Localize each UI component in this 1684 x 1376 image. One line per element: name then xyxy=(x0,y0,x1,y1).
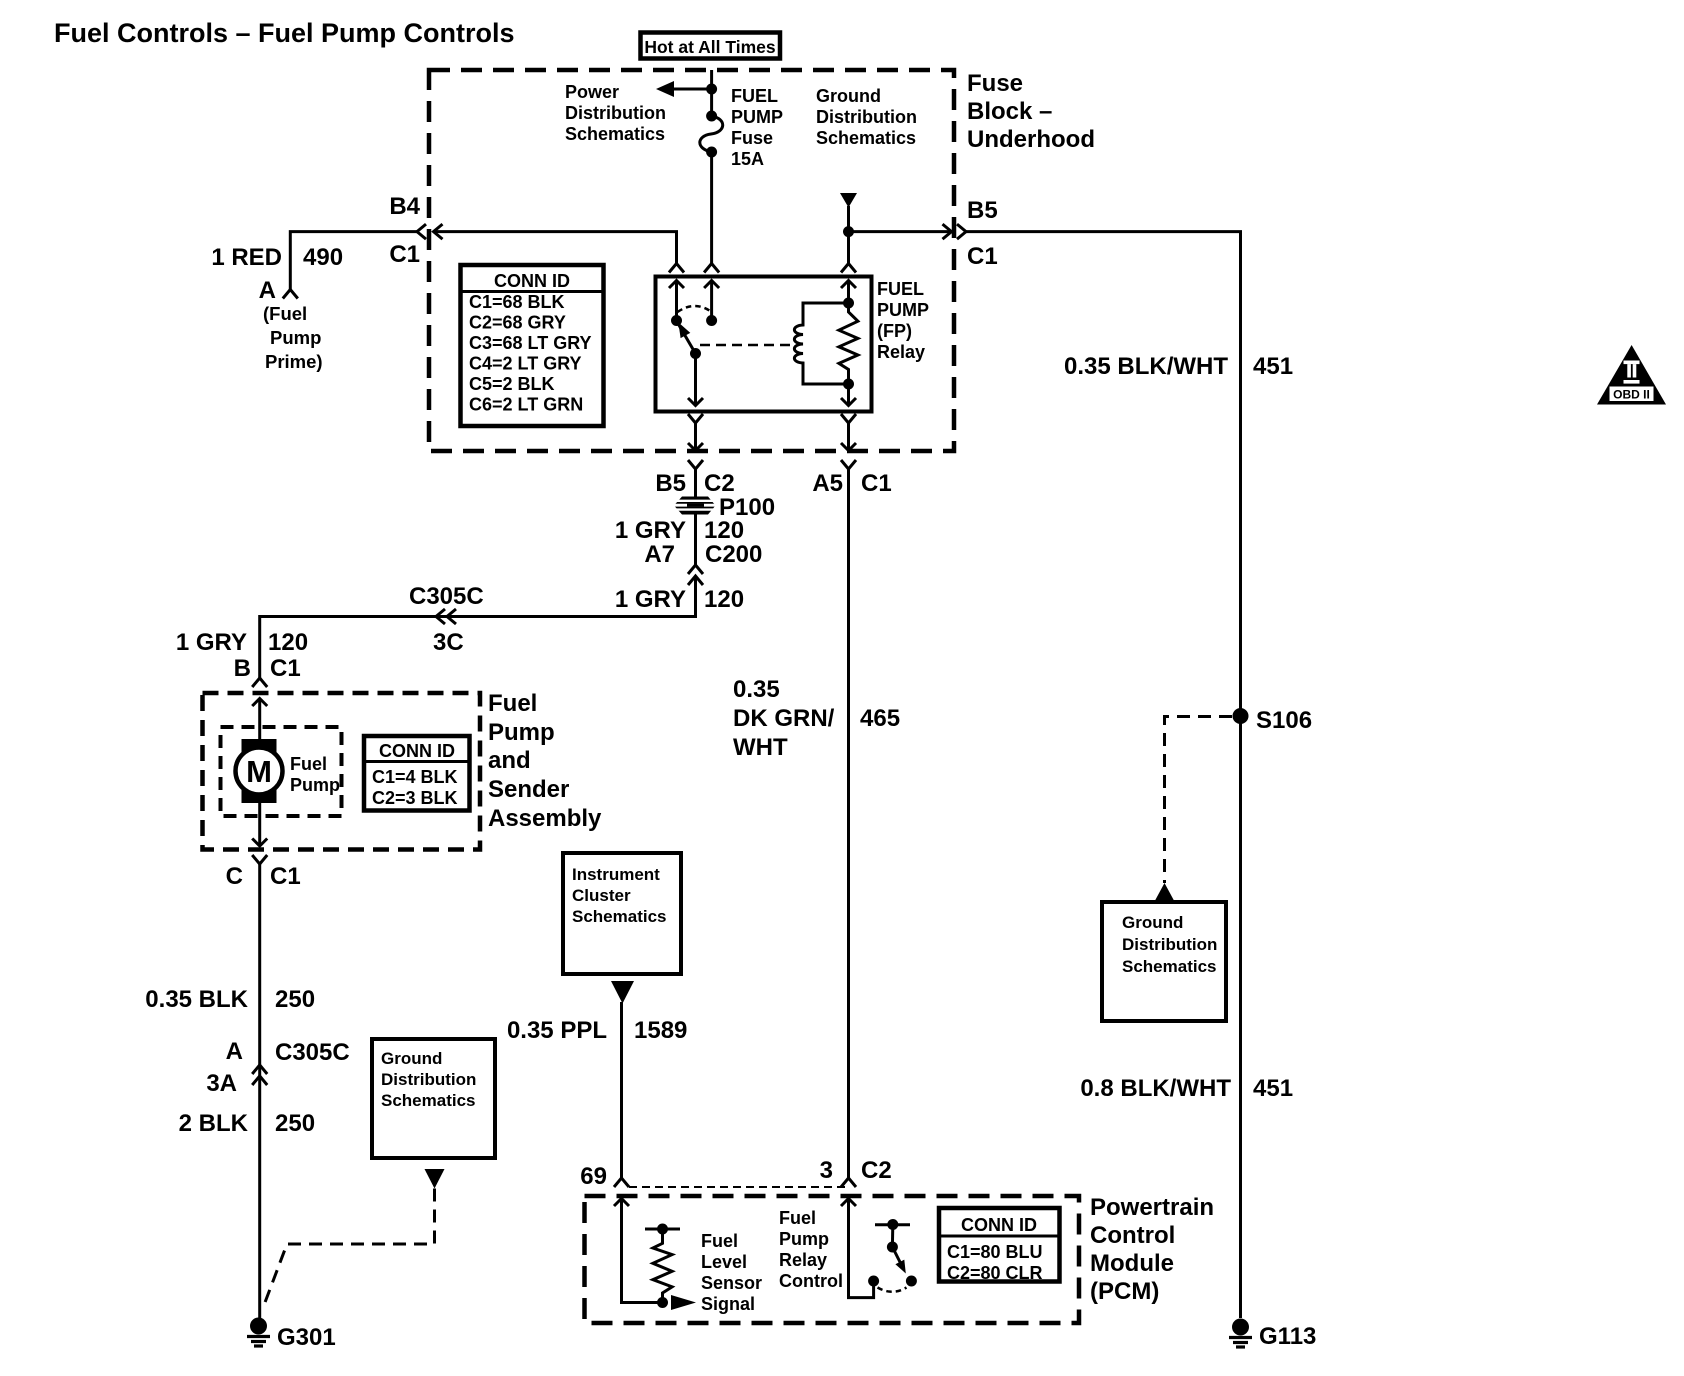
svg-text:Schematics: Schematics xyxy=(816,128,916,148)
connector fork relay pin (fuse side) xyxy=(704,264,719,273)
connector fork below relay (coil out) xyxy=(841,414,856,423)
svg-text:C1: C1 xyxy=(270,655,301,682)
svg-text:1 GRY: 1 GRY xyxy=(176,629,247,656)
svg-text:Signal: Signal xyxy=(701,1294,755,1314)
svg-text:C305C: C305C xyxy=(409,583,484,610)
wire to P100 xyxy=(694,469,697,497)
svg-text:PUMP: PUMP xyxy=(731,107,783,127)
svg-text:120: 120 xyxy=(704,586,744,613)
wire fuse output to relay xyxy=(710,152,713,264)
wire B4 to relay switch xyxy=(434,232,677,264)
svg-text:Module: Module xyxy=(1090,1250,1174,1277)
svg-text:C305C: C305C xyxy=(275,1039,350,1066)
ground distribution schematics box (right) xyxy=(1102,902,1226,1021)
label FUEL PUMP Fuse 15A xyxy=(731,86,783,169)
svg-text:C2=68 GRY: C2=68 GRY xyxy=(469,313,566,333)
fuel pump and sender assembly dashed box xyxy=(203,693,481,850)
wire coil node down xyxy=(847,384,850,406)
svg-text:C: C xyxy=(226,863,243,890)
svg-text:Fuel Controls – Fuel Pump Cont: Fuel Controls – Fuel Pump Controls xyxy=(54,18,515,48)
svg-text:1589: 1589 xyxy=(634,1017,687,1044)
label Powertrain Control Module (PCM) xyxy=(1090,1194,1214,1305)
fuse F FUEL PUMP 15A xyxy=(700,111,723,158)
wire 1 RED 490 stub xyxy=(290,232,417,290)
svg-text:Instrument: Instrument xyxy=(572,865,660,884)
svg-text:Ground: Ground xyxy=(381,1049,442,1068)
svg-text:C1: C1 xyxy=(967,243,998,270)
connector C305C 3A chevron pair xyxy=(252,1065,267,1085)
fuse block underhood dashed box xyxy=(429,70,954,451)
svg-text:G301: G301 xyxy=(277,1324,336,1351)
off-page triangle below left ground box xyxy=(425,1169,445,1189)
relay pin arrow down (coil out) xyxy=(841,398,856,406)
svg-text:G113: G113 xyxy=(1259,1323,1316,1350)
junction dot node B5 wire xyxy=(843,226,854,237)
CONN ID table fuel pump xyxy=(364,736,470,811)
label FUEL PUMP (FP) Relay xyxy=(877,279,929,362)
svg-text:Schematics: Schematics xyxy=(572,907,667,926)
arrow at B5 fuse block boundary xyxy=(943,224,952,239)
off-page triangle above right ground box xyxy=(1155,883,1175,902)
svg-text:Control: Control xyxy=(1090,1222,1175,1249)
svg-text:Pump: Pump xyxy=(290,775,340,795)
connector fork below assembly C/C1 xyxy=(252,855,267,864)
svg-text:C1=80 BLU: C1=80 BLU xyxy=(947,1242,1043,1262)
wire instrument cluster to PCM pin 69 xyxy=(620,1002,623,1178)
svg-text:C3=68 LT GRY: C3=68 LT GRY xyxy=(469,333,592,353)
svg-text:Level: Level xyxy=(701,1252,747,1272)
terminal chevron A (fuel pump prime) xyxy=(283,290,298,299)
relay switch contact dot right xyxy=(706,315,717,326)
connector C200 chevron pair xyxy=(688,565,703,585)
svg-text:B4: B4 xyxy=(389,193,420,220)
connector fork below relay (switch out) xyxy=(688,414,703,423)
svg-text:C2=3 BLK: C2=3 BLK xyxy=(372,788,458,808)
PCM dashed box xyxy=(585,1196,1080,1323)
svg-text:A5: A5 xyxy=(812,470,843,497)
relay switch blade xyxy=(678,324,696,354)
svg-text:0.35 BLK: 0.35 BLK xyxy=(145,986,248,1013)
wire tap to power distribution xyxy=(671,88,712,91)
svg-text:69: 69 xyxy=(580,1163,607,1190)
svg-text:120: 120 xyxy=(704,517,744,544)
arrow at boundary (coil out) xyxy=(841,443,856,451)
connector C305C 3C chevron pair xyxy=(436,609,456,624)
label (Fuel Pump Prime) xyxy=(263,303,323,372)
label box "Hot at All Times" xyxy=(641,33,781,59)
svg-text:C2=80 CLR: C2=80 CLR xyxy=(947,1263,1043,1283)
svg-text:Sensor: Sensor xyxy=(701,1273,762,1293)
connector fork above PCM pin 69 xyxy=(614,1178,629,1187)
svg-text:Prime): Prime) xyxy=(265,351,323,372)
svg-text:Pump: Pump xyxy=(488,719,555,746)
svg-text:OBD II: OBD II xyxy=(1613,388,1650,402)
fuel level sensor resistor xyxy=(645,1224,680,1309)
wire relay pin to coil node xyxy=(847,281,850,304)
svg-text:1 RED: 1 RED xyxy=(211,244,282,271)
svg-text:B5: B5 xyxy=(655,470,686,497)
motor M fuel pump xyxy=(236,739,283,803)
PCM pin arrow 69 xyxy=(614,1199,629,1207)
ground distribution schematics box (left) xyxy=(372,1039,495,1158)
svg-text:Block –: Block – xyxy=(967,98,1052,125)
svg-text:A: A xyxy=(259,277,276,304)
wire pump pin to motor xyxy=(258,699,261,742)
pump pin arrow (top) xyxy=(252,699,267,707)
svg-text:Schematics: Schematics xyxy=(381,1091,476,1110)
svg-text:Control: Control xyxy=(779,1271,843,1291)
arrow to power distribution schematics xyxy=(656,81,674,97)
CONN ID table PCM xyxy=(939,1208,1060,1283)
pump pin arrow (bottom) xyxy=(252,839,267,847)
svg-text:M: M xyxy=(246,754,272,789)
svg-text:C200: C200 xyxy=(705,541,762,568)
svg-text:(Fuel: (Fuel xyxy=(263,303,307,324)
wire relay pin to NO contact xyxy=(710,281,713,321)
relay coil resistor xyxy=(839,303,858,384)
wire switch common down xyxy=(694,354,697,406)
svg-text:Schematics: Schematics xyxy=(565,124,665,144)
connector fork above PCM pin 3 xyxy=(841,1178,856,1187)
pass-through grommet P100 xyxy=(674,497,716,515)
relay coil parallel bottom node xyxy=(843,379,854,390)
svg-text:C4=2 LT GRY: C4=2 LT GRY xyxy=(469,354,582,374)
dashed path S106 to ground distribution xyxy=(1165,717,1233,884)
off-page triangle below instrument cluster xyxy=(611,981,634,1004)
svg-text:A: A xyxy=(226,1038,243,1065)
wire junction to B5 connector xyxy=(849,230,952,233)
wire pump ground run xyxy=(258,864,261,1318)
svg-text:Fuel: Fuel xyxy=(701,1231,738,1251)
svg-text:B5: B5 xyxy=(967,197,998,224)
svg-text:120: 120 xyxy=(268,629,308,656)
svg-text:Ground: Ground xyxy=(1122,913,1183,932)
svg-text:2 BLK: 2 BLK xyxy=(179,1110,249,1137)
instrument cluster schematics box xyxy=(563,853,681,974)
svg-text:C1=68 BLK: C1=68 BLK xyxy=(469,292,565,312)
svg-text:Pump: Pump xyxy=(779,1229,829,1249)
label Fuse Block - Underhood xyxy=(967,70,1095,153)
CONN ID table C1 fuse block xyxy=(461,265,604,426)
label Power Distribution Schematics xyxy=(565,82,666,144)
svg-text:Powertrain: Powertrain xyxy=(1090,1194,1214,1221)
svg-text:Underhood: Underhood xyxy=(967,126,1095,153)
dashed path to G301 xyxy=(263,1189,435,1310)
svg-text:Distribution: Distribution xyxy=(1122,935,1217,954)
wire to fuse block boundary (coil out) xyxy=(847,423,850,451)
wire motor to assembly boundary xyxy=(258,803,261,846)
relay switch contact dot left xyxy=(671,315,682,326)
relay switch blade arrowhead xyxy=(678,322,690,338)
svg-text:A7: A7 xyxy=(644,541,675,568)
relay pin arrow (fuse side) xyxy=(704,281,719,289)
svg-text:C1: C1 xyxy=(861,470,892,497)
label 0.35 DK GRN/ WHT xyxy=(733,676,835,761)
wire P100 to C200 xyxy=(694,515,697,566)
svg-text:FUEL: FUEL xyxy=(877,279,924,299)
svg-text:0.35 PPL: 0.35 PPL xyxy=(507,1017,607,1044)
svg-text:Fuel: Fuel xyxy=(779,1208,816,1228)
svg-text:FUEL: FUEL xyxy=(731,86,778,106)
svg-text:Ground: Ground xyxy=(816,86,881,106)
svg-text:and: and xyxy=(488,747,531,774)
label Fuel Pump and Sender Assembly xyxy=(488,690,602,832)
relay coil (inductor) xyxy=(794,303,848,384)
svg-text:Cluster: Cluster xyxy=(572,886,631,905)
splice S106 xyxy=(1233,708,1249,724)
connector fork below boundary A5/C1 xyxy=(841,460,856,469)
svg-text:Fuse: Fuse xyxy=(731,128,773,148)
svg-text:3: 3 xyxy=(820,1157,833,1184)
wire triangle to B5 junction xyxy=(847,206,850,232)
svg-text:Assembly: Assembly xyxy=(488,805,602,832)
fuel level sensor signal arrow xyxy=(671,1295,696,1310)
wire dk grn relay control xyxy=(847,469,850,1178)
svg-text:0.35: 0.35 xyxy=(733,676,780,703)
svg-text:3C: 3C xyxy=(433,629,464,656)
svg-text:451: 451 xyxy=(1253,353,1293,380)
svg-text:Fuel: Fuel xyxy=(488,690,537,717)
junction dot hot feed xyxy=(706,84,717,95)
svg-text:Distribution: Distribution xyxy=(565,103,666,123)
relay pin arrow (switch feed) xyxy=(669,281,684,289)
svg-text:B: B xyxy=(234,655,251,682)
svg-text:Power: Power xyxy=(565,82,619,102)
svg-text:Fuse: Fuse xyxy=(967,70,1023,97)
relay switch throw arc (dashed) xyxy=(678,306,712,312)
svg-text:Hot at All Times: Hot at All Times xyxy=(644,37,776,57)
svg-text:Relay: Relay xyxy=(779,1250,827,1270)
PCM driver switch xyxy=(868,1219,917,1292)
svg-text:465: 465 xyxy=(860,705,900,732)
label Fuel Pump (motor) xyxy=(290,754,340,795)
wire to fuse block boundary (switch out) xyxy=(694,423,697,451)
svg-text:1 GRY: 1 GRY xyxy=(615,586,686,613)
wire ground distr. down to relay xyxy=(847,232,850,264)
svg-text:WHT: WHT xyxy=(733,734,788,761)
svg-text:S106: S106 xyxy=(1256,707,1312,734)
svg-text:250: 250 xyxy=(275,986,315,1013)
svg-text:C1: C1 xyxy=(270,863,301,890)
svg-text:C1: C1 xyxy=(389,241,420,268)
svg-text:15A: 15A xyxy=(731,149,764,169)
PCM pin arrow 3 xyxy=(841,1199,856,1207)
connector fork relay pin (coil top) xyxy=(841,264,856,273)
ground symbol G113 xyxy=(1229,1319,1252,1348)
wire hot feed vertical xyxy=(710,70,713,116)
svg-text:Pump: Pump xyxy=(270,327,321,348)
svg-text:C1=4 BLK: C1=4 BLK xyxy=(372,767,458,787)
wire 451 blk/wht xyxy=(966,232,1241,1318)
ground symbol G301 xyxy=(247,1318,270,1347)
label Fuel Pump Relay Control xyxy=(779,1208,843,1291)
svg-text:0.35 BLK/WHT: 0.35 BLK/WHT xyxy=(1064,353,1228,380)
svg-text:Distribution: Distribution xyxy=(816,107,917,127)
svg-text:Relay: Relay xyxy=(877,342,925,362)
connector chevron B4/C1 xyxy=(417,224,426,239)
PCM connector face thin dashed line xyxy=(629,1186,845,1188)
svg-text:0.8 BLK/WHT: 0.8 BLK/WHT xyxy=(1080,1075,1231,1102)
relay switch common dot xyxy=(690,348,701,359)
connector fork below boundary B5/C2 xyxy=(688,460,703,469)
arrow at B4 fuse block boundary xyxy=(434,224,443,239)
connector fork above pump assembly xyxy=(252,678,267,687)
svg-text:C5=2 BLK: C5=2 BLK xyxy=(469,374,555,394)
svg-text:CONN ID: CONN ID xyxy=(961,1215,1037,1235)
svg-text:451: 451 xyxy=(1253,1075,1293,1102)
svg-text:Distribution: Distribution xyxy=(381,1070,476,1089)
svg-text:DK GRN/: DK GRN/ xyxy=(733,705,835,732)
fuel pump inner dashed box xyxy=(221,727,342,816)
svg-text:C6=2 LT GRN: C6=2 LT GRN xyxy=(469,395,583,415)
svg-text:(PCM): (PCM) xyxy=(1090,1278,1159,1305)
relay box FUEL PUMP (FP) xyxy=(656,277,872,412)
wire PCM pin 69 internal xyxy=(622,1199,663,1303)
svg-text:C2: C2 xyxy=(861,1157,892,1184)
relay coil parallel top node xyxy=(843,298,854,309)
svg-text:CONN ID: CONN ID xyxy=(494,271,570,291)
svg-text:Fuel: Fuel xyxy=(290,754,327,774)
svg-text:CONN ID: CONN ID xyxy=(379,741,455,761)
label Fuel Level Sensor Signal xyxy=(701,1231,762,1314)
svg-text:1 GRY: 1 GRY xyxy=(615,517,686,544)
connector fork relay pin (switch feed) xyxy=(669,264,684,273)
OBD II symbol xyxy=(1597,345,1666,405)
relay pin arrow down (switch out) xyxy=(688,398,703,406)
wire C200 to corner xyxy=(260,576,696,678)
svg-text:(FP): (FP) xyxy=(877,321,912,341)
svg-text:250: 250 xyxy=(275,1110,315,1137)
svg-text:C2: C2 xyxy=(704,470,735,497)
relay pin arrow (coil top) xyxy=(841,281,856,289)
arrow at boundary (switch out) xyxy=(688,443,703,451)
svg-text:Sender: Sender xyxy=(488,776,569,803)
wire relay pin to switch contact xyxy=(675,281,678,321)
connector chevron B5/C1 xyxy=(957,224,966,239)
svg-text:3A: 3A xyxy=(206,1070,237,1097)
svg-text:PUMP: PUMP xyxy=(877,300,929,320)
label Ground Distribution Schematics (fuse block) xyxy=(816,86,917,148)
relay actuation dashed link xyxy=(700,344,795,347)
off-page triangle from ground distribution schematics xyxy=(840,193,857,208)
svg-text:Schematics: Schematics xyxy=(1122,957,1217,976)
svg-text:490: 490 xyxy=(303,244,343,271)
wire PCM pin 3 internal xyxy=(849,1199,874,1298)
